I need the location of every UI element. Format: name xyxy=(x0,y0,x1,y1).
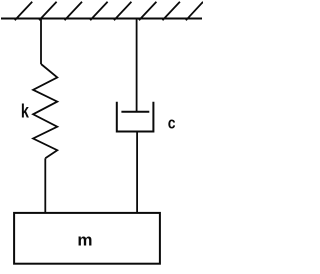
wire: spring bottom rod xyxy=(44,158,46,213)
svg-text:c: c xyxy=(168,114,176,133)
wire: spring top rod xyxy=(40,19,42,65)
ceiling hatch 3 xyxy=(65,2,82,21)
wire: damper bottom rod xyxy=(136,132,138,214)
wire: damper top rod xyxy=(136,19,138,112)
ceiling hatch 1 xyxy=(15,2,32,21)
mass m box xyxy=(14,213,160,264)
ceiling hatch 2 xyxy=(39,2,56,21)
ceiling hatch 8 xyxy=(186,2,203,21)
ceiling hatch 4 xyxy=(90,2,107,21)
ceiling hatch 6 xyxy=(139,2,156,21)
damper cup C xyxy=(117,102,154,132)
svg-text:m: m xyxy=(77,231,92,250)
damper piston plate xyxy=(121,111,149,113)
svg-text:k: k xyxy=(21,101,30,122)
ceiling hatch 7 xyxy=(163,2,180,21)
ceiling hatch 5 xyxy=(114,2,131,21)
ceiling line xyxy=(1,18,202,20)
spring k xyxy=(33,64,57,158)
